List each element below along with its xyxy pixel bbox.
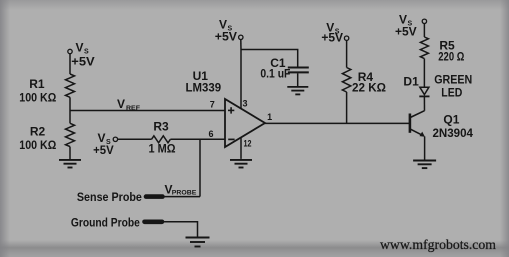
svg-text:2N3904: 2N3904	[432, 126, 473, 140]
power terminal Vs +5V (left divider)	[68, 49, 72, 53]
op-amp minus input mark	[228, 138, 234, 140]
svg-text:Ground Probe: Ground Probe	[71, 216, 140, 230]
resistor R2	[66, 123, 75, 146]
svg-text:100 KΩ: 100 KΩ	[19, 138, 56, 152]
ground (op-amp)	[230, 160, 252, 168]
svg-text:+5V: +5V	[321, 31, 343, 45]
svg-text:1: 1	[267, 112, 272, 122]
wire (branch to C1)	[241, 50, 298, 67]
wire	[163, 196, 201, 198]
svg-text:0.1 uF: 0.1 uF	[260, 67, 290, 81]
ground (Q1)	[413, 161, 436, 169]
power terminal Vs +5V (R3 input)	[113, 137, 117, 141]
wire (emitter)	[424, 136, 426, 159]
ground (divider)	[59, 160, 81, 168]
svg-text:GREEN: GREEN	[434, 73, 472, 87]
svg-text:V: V	[76, 41, 84, 55]
wire (probe junction drop)	[199, 139, 201, 196]
wire	[423, 96, 425, 110]
svg-text:PROBE: PROBE	[172, 190, 197, 197]
resistor R3	[152, 136, 171, 143]
wire	[69, 97, 71, 123]
svg-text:D1: D1	[403, 75, 419, 89]
capacitor C1	[288, 68, 309, 73]
power terminal Vs +5V (op-amp supply)	[239, 35, 243, 39]
power terminal Vs +5V (R5 supply)	[422, 19, 426, 23]
wire	[423, 24, 425, 37]
transistor Q1 2N3904	[410, 111, 425, 137]
op-amp U1 LM339 triangle	[225, 99, 265, 147]
svg-text:R3: R3	[153, 120, 169, 134]
sense probe tip	[146, 194, 163, 199]
svg-text:7: 7	[210, 100, 215, 110]
svg-text:22 KΩ: 22 KΩ	[352, 81, 386, 95]
svg-text:REF: REF	[126, 105, 140, 112]
svg-text:220 Ω: 220 Ω	[438, 50, 464, 64]
wire	[69, 54, 71, 74]
wire	[346, 92, 348, 123]
resistor R4	[342, 68, 350, 92]
svg-text:R2: R2	[30, 125, 46, 139]
pin 12 wire (V-)	[240, 137, 242, 159]
ground probe tip	[145, 220, 163, 225]
wire	[118, 138, 152, 140]
LED D1	[420, 87, 429, 94]
svg-text:Sense Probe: Sense Probe	[77, 190, 142, 204]
resistor R5	[420, 37, 428, 59]
pin 1 output wire	[264, 122, 409, 124]
svg-text:+5V: +5V	[71, 55, 94, 69]
pin 3 wire (V+)	[240, 50, 242, 109]
svg-text:+5V: +5V	[93, 143, 114, 157]
power terminal Vs +5V (R4 supply)	[344, 36, 348, 40]
wire	[69, 147, 71, 159]
wire	[297, 73, 299, 86]
wire to pin 6	[170, 138, 225, 140]
op-amp plus input mark	[228, 107, 234, 113]
svg-text:www.mfgrobots.com: www.mfgrobots.com	[380, 237, 496, 252]
svg-text:Q1: Q1	[443, 113, 459, 127]
svg-text:V: V	[117, 97, 125, 111]
wire	[162, 222, 198, 237]
svg-text:3: 3	[242, 99, 247, 109]
svg-text:6: 6	[208, 129, 213, 139]
resistor R1	[66, 74, 75, 97]
wire	[423, 59, 425, 88]
svg-text:+5V: +5V	[215, 30, 237, 44]
svg-text:1 MΩ: 1 MΩ	[149, 142, 176, 156]
svg-text:12: 12	[244, 138, 252, 148]
node VREF / wire to pin 7	[70, 110, 225, 112]
svg-text:+5V: +5V	[395, 25, 417, 39]
ground (C1)	[287, 87, 308, 95]
ground (probe)	[186, 238, 210, 247]
wire	[240, 40, 242, 50]
svg-text:R1: R1	[29, 77, 45, 91]
svg-text:100 KΩ: 100 KΩ	[19, 91, 56, 105]
svg-text:LM339: LM339	[186, 81, 222, 95]
svg-text:LED: LED	[441, 86, 462, 100]
wire	[346, 41, 348, 68]
